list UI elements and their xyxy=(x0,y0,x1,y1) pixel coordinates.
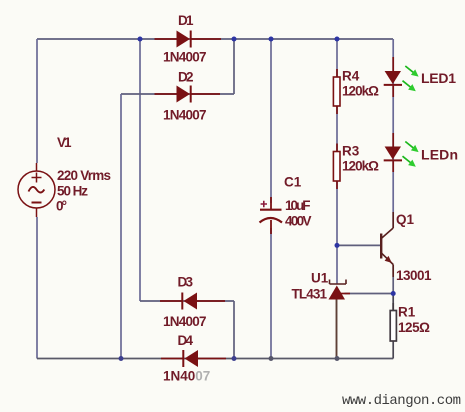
wire bottom rail xyxy=(37,358,393,360)
svg-text:TL431: TL431 xyxy=(292,287,328,302)
svg-text:220 Vrms: 220 Vrms xyxy=(57,168,111,183)
wire R1 bottom xyxy=(392,341,394,359)
node junction (140,39) xyxy=(138,37,143,42)
diode D2 xyxy=(155,86,221,103)
svg-text:D2: D2 xyxy=(178,70,194,85)
svg-text:U1: U1 xyxy=(311,271,329,286)
wire top rail xyxy=(37,38,393,40)
node junction (234,39) xyxy=(232,37,237,42)
svg-text:D1: D1 xyxy=(178,13,194,28)
svg-text:C1: C1 xyxy=(284,175,302,190)
svg-text:1N4007: 1N4007 xyxy=(163,108,207,123)
LED LEDn xyxy=(384,133,402,172)
wire D3 row horizontal xyxy=(140,300,234,302)
wire R1 top xyxy=(392,294,394,311)
svg-text:50 Hz: 50 Hz xyxy=(57,184,88,199)
node junction (271,39) xyxy=(269,37,274,42)
resistor R1 xyxy=(390,303,396,341)
node junction (121,358.5) xyxy=(119,356,124,361)
LEDn emission arrows xyxy=(403,142,419,167)
svg-text:400V: 400V xyxy=(285,214,312,229)
svg-text:120kΩ: 120kΩ xyxy=(342,159,379,174)
svg-text:1N4007: 1N4007 xyxy=(163,314,207,329)
wire TL431 ref to emitter node xyxy=(345,293,394,295)
wire R4 R3 branch xyxy=(336,39,338,284)
resistor R3 xyxy=(333,144,340,190)
wire left vertical lower (V1 bottom to bottom rail) xyxy=(36,217,38,359)
wire Q1 emitter to node xyxy=(392,265,394,294)
svg-text:www.diangon.com: www.diangon.com xyxy=(342,393,461,409)
node junction (234,358.5) xyxy=(232,356,237,361)
svg-text:V1: V1 xyxy=(57,135,72,150)
diode D1 xyxy=(155,31,222,48)
resistor R4 xyxy=(333,69,340,114)
diode D4 xyxy=(161,350,226,367)
wire C1 branch upper xyxy=(270,39,272,203)
wire vertical x=234 upper (D2 cathode to top rail) xyxy=(233,39,235,94)
diode D3 xyxy=(160,293,225,310)
shunt regulator U1 TL431 xyxy=(329,280,351,300)
wire vertical x=234 (D3 anode down to bottom rail) xyxy=(233,301,235,359)
wire TL431 anode down xyxy=(336,300,338,359)
node junction (337,358.5) xyxy=(335,356,340,361)
LED1 emission arrows xyxy=(403,66,419,91)
capacitor C1 xyxy=(260,197,283,234)
svg-text:1N4007: 1N4007 xyxy=(163,369,210,384)
svg-text:Q1: Q1 xyxy=(396,212,415,227)
svg-text:R4: R4 xyxy=(342,69,360,84)
node junction (271,358.5) xyxy=(269,356,274,361)
node junction emitter/R1/ref (393,293.5) xyxy=(391,291,396,296)
Q1 emitter arrow xyxy=(385,256,392,263)
wire C1 branch lower xyxy=(270,228,272,359)
svg-text:1N4007: 1N4007 xyxy=(163,50,207,65)
svg-text:120kΩ: 120kΩ xyxy=(342,84,379,99)
svg-text:R3: R3 xyxy=(342,144,360,159)
LED LED1 xyxy=(384,57,402,97)
source V1 xyxy=(18,163,55,217)
svg-text:D3: D3 xyxy=(178,275,194,290)
svg-text:13001: 13001 xyxy=(396,268,432,283)
svg-text:0°: 0° xyxy=(56,199,67,214)
svg-text:R1: R1 xyxy=(398,305,416,320)
wire D2 row horizontal xyxy=(121,93,234,95)
wire vertical x=140 (AC1 to D3 cathode) xyxy=(139,39,141,301)
wire vertical x=121 (D2 anode to bottom rail) xyxy=(120,94,122,359)
svg-text:125Ω: 125Ω xyxy=(398,320,430,335)
svg-text:LEDn: LEDn xyxy=(421,147,458,163)
svg-text:D4: D4 xyxy=(178,333,194,348)
node junction Q1 base (337,245) xyxy=(335,243,340,248)
wire left vertical upper (to V1 top) xyxy=(36,39,38,163)
transistor Q1 xyxy=(381,212,393,277)
svg-text:LED1: LED1 xyxy=(421,70,456,86)
wire Q1 base from node xyxy=(337,244,381,246)
wire LED string vertical xyxy=(392,39,394,228)
svg-text:10uF: 10uF xyxy=(285,198,311,213)
node junction (337,39) xyxy=(335,37,340,42)
